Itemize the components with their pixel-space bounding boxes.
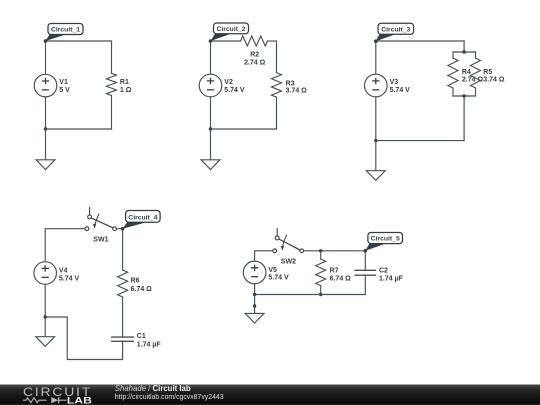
- node Circuit_2 flag: [209, 23, 249, 43]
- junction: circuit 4 bottom node: [44, 315, 47, 318]
- wire: feed down to parallel top bar: [463, 41, 465, 52]
- wire: parallel combo bottom bar: [453, 95, 476, 97]
- R1 value label 1 Ω: [120, 79, 132, 94]
- wire: R4 top stub: [452, 52, 454, 58]
- resistor R1: [107, 73, 117, 95]
- wire: V3 bottom to rail: [375, 97, 377, 141]
- wire: ground stub circuit 3: [375, 141, 377, 171]
- V1 value label 5 V: [59, 79, 70, 94]
- wire: circuit 1 top rail: [46, 40, 112, 42]
- junction: R7 top node: [319, 249, 322, 252]
- voltage source V5: [243, 261, 266, 284]
- node Circuit_4 flag: [121, 211, 160, 231]
- junction: circuit 3 bottom node: [374, 139, 377, 142]
- junction: circuit 2 bottom node: [209, 127, 212, 130]
- svg-text:http://circuitlab.com/cgcvx87v: http://circuitlab.com/cgcvx87vy2443: [115, 394, 224, 401]
- ground (circuit 4): [36, 337, 55, 347]
- junction: parallel bottom node: [462, 94, 465, 97]
- svg-text:5 V: 5 V: [59, 87, 70, 94]
- wire: ground stub circuit 1: [45, 129, 47, 160]
- V4 value label 5.74 V: [59, 268, 80, 283]
- wire: node down to R7: [320, 251, 322, 259]
- wire: ground stub circuit 4: [44, 317, 46, 337]
- svg-text:V4: V4: [59, 268, 68, 275]
- svg-text:Circuit_1: Circuit_1: [51, 27, 80, 34]
- node Circuit_3 flag: [374, 23, 414, 43]
- wire: R6 to C1: [122, 297, 124, 337]
- voltage source V2: [199, 74, 222, 97]
- V3 value label 5.74 V: [390, 79, 411, 94]
- V2 value label 5.74 V: [224, 79, 245, 94]
- wire: switch SW1 to node: [117, 228, 123, 230]
- wire: circuit 3 left branch (node to V3): [375, 41, 377, 74]
- node Circuit_5 flag: [364, 233, 403, 253]
- wire: R5 top stub: [475, 52, 477, 58]
- wire: ground stub circuit 2: [210, 129, 212, 160]
- svg-text:Shahade / Circuit lab: Shahade / Circuit lab: [115, 384, 191, 393]
- R2 value label 2.74 Ω: [244, 52, 266, 67]
- svg-text:C1: C1: [137, 333, 146, 340]
- wire: circuit 1 left branch (node to V1 top): [45, 41, 47, 74]
- svg-text:5.74 V: 5.74 V: [59, 275, 80, 282]
- junction: ground stub node circuit 5: [253, 304, 256, 307]
- logo diode: [51, 397, 66, 403]
- svg-text:6.74 Ω: 6.74 Ω: [330, 276, 352, 283]
- R5 value label 3.74 Ω: [483, 69, 505, 84]
- footer URL: [115, 394, 224, 401]
- wire: circuit 3 bottom rail: [376, 140, 464, 142]
- svg-text:V5: V5: [268, 267, 277, 274]
- svg-text:SW1: SW1: [93, 236, 108, 243]
- wire: V2 bottom to rail: [210, 97, 212, 129]
- wire: R5 bottom stub: [475, 88, 477, 96]
- svg-text:5.74 V: 5.74 V: [390, 87, 411, 94]
- V5 value label 5.74 V: [268, 267, 289, 282]
- switch SW2: [273, 228, 304, 253]
- wire: circuit 2 left branch (node to V2): [210, 41, 212, 74]
- wire: circuit 1 right branch upper: [111, 41, 113, 73]
- junction: R7 bottom node: [319, 293, 322, 296]
- footer author line: Shahade / Circuit lab: [115, 384, 191, 393]
- resistor R6: [118, 270, 128, 297]
- svg-text:C2: C2: [379, 267, 388, 274]
- capacitor C2: [354, 270, 376, 275]
- svg-text:3.74 Ω: 3.74 Ω: [483, 77, 505, 84]
- svg-text:2.74 Ω: 2.74 Ω: [244, 59, 266, 66]
- svg-text:SW2: SW2: [281, 258, 296, 265]
- capacitor C1: [111, 337, 134, 341]
- node Circuit_1 flag: [44, 24, 83, 43]
- resistor R5: [471, 58, 481, 88]
- wire: V1 bottom to ground node: [45, 97, 47, 129]
- wire: C2 corner down to plate: [364, 251, 366, 270]
- junction: parallel top node: [462, 50, 465, 53]
- resistor R2: [241, 36, 268, 46]
- ground (circuit 1): [36, 160, 55, 170]
- wire: V5 top to switch level: [255, 251, 273, 261]
- voltage source V4: [34, 262, 57, 285]
- svg-text:1 Ω: 1 Ω: [120, 87, 132, 94]
- C1 value label 1.74 µF: [137, 333, 162, 348]
- svg-text:R4: R4: [462, 69, 471, 76]
- svg-text:Circuit_5: Circuit_5: [371, 236, 400, 243]
- CircuitLab logo wordmark CIRCUIT: [23, 385, 92, 399]
- wire: node down to R6: [122, 229, 124, 270]
- wire: circuit 2 node to R2 left: [211, 40, 241, 42]
- svg-text:3.74 Ω: 3.74 Ω: [286, 88, 308, 95]
- svg-text:Circuit_4: Circuit_4: [128, 214, 157, 221]
- svg-text:5.74 V: 5.74 V: [224, 87, 245, 94]
- logo resistor zigzag: [23, 398, 47, 403]
- wire: circuit 3 top rail: [376, 40, 464, 42]
- switch SW1: [85, 207, 117, 231]
- svg-text:5.74 V: 5.74 V: [268, 275, 289, 282]
- wire: V4 top to switch level: [45, 229, 85, 262]
- ground (circuit 5): [245, 313, 264, 323]
- svg-text:R2: R2: [250, 52, 259, 59]
- wire: ground stub circuit 5: [254, 295, 256, 314]
- svg-text:V1: V1: [59, 79, 68, 86]
- svg-text:Circuit_3: Circuit_3: [381, 26, 410, 33]
- svg-text:6.74 Ω: 6.74 Ω: [131, 286, 153, 293]
- wire: V4 bottom to junction: [44, 284, 46, 317]
- voltage source V1: [34, 74, 57, 97]
- svg-text:R7: R7: [330, 267, 339, 274]
- resistor R4: [448, 58, 458, 88]
- voltage source V3: [365, 74, 388, 97]
- svg-text:R1: R1: [120, 79, 129, 86]
- wire: R4 bottom stub: [452, 88, 454, 96]
- wire: circuit 1 right branch lower: [111, 96, 113, 130]
- ground (circuit 2): [201, 160, 220, 170]
- wire: circuit 2 right branch lower: [276, 97, 278, 129]
- wire: circuit 2 right branch upper: [276, 41, 278, 73]
- wire: C1 bottom loop back to V4: [45, 317, 122, 360]
- svg-text:1.74 µF: 1.74 µF: [379, 276, 404, 283]
- R4 value label 2.74 Ω: [462, 69, 484, 84]
- resistor R3: [272, 73, 282, 98]
- footer bar: [0, 385, 540, 405]
- R7 value label 6.74 Ω: [330, 267, 352, 282]
- svg-text:Circuit_2: Circuit_2: [216, 26, 245, 33]
- svg-text:R5: R5: [483, 69, 492, 76]
- wire: V5 bottom to rail: [254, 284, 256, 295]
- wire: feed from parallel bottom to rail: [463, 96, 465, 141]
- wire: R7 node to C2 corner: [321, 250, 366, 252]
- wire: C2 bottom to rail: [255, 275, 366, 294]
- junction: circuit 1 bottom node: [44, 127, 47, 130]
- C2 value label 1.74 µF: [379, 267, 404, 282]
- logo wordmark LAB: [67, 395, 92, 405]
- svg-text:LAB: LAB: [67, 395, 92, 405]
- svg-text:1.74 µF: 1.74 µF: [137, 341, 162, 348]
- wire: circuit 1 bottom rail: [46, 128, 112, 130]
- svg-text:V3: V3: [390, 79, 399, 86]
- svg-text:V2: V2: [224, 79, 233, 86]
- resistor R7: [316, 259, 326, 286]
- wire: circuit 2 bottom rail: [211, 128, 277, 130]
- wire: R2 right to corner: [268, 40, 277, 42]
- wire: R7 bottom to rail: [320, 286, 322, 295]
- svg-text:R6: R6: [131, 277, 140, 284]
- junction: V5 bottom node: [253, 293, 256, 296]
- wire: switch SW2 to R7 node: [304, 250, 321, 252]
- ground (circuit 3): [366, 171, 385, 181]
- svg-text:R3: R3: [286, 80, 295, 87]
- R6 value label 6.74 Ω: [131, 277, 153, 293]
- R3 value label 3.74 Ω: [286, 80, 308, 94]
- wire: parallel combo top bar: [453, 51, 476, 53]
